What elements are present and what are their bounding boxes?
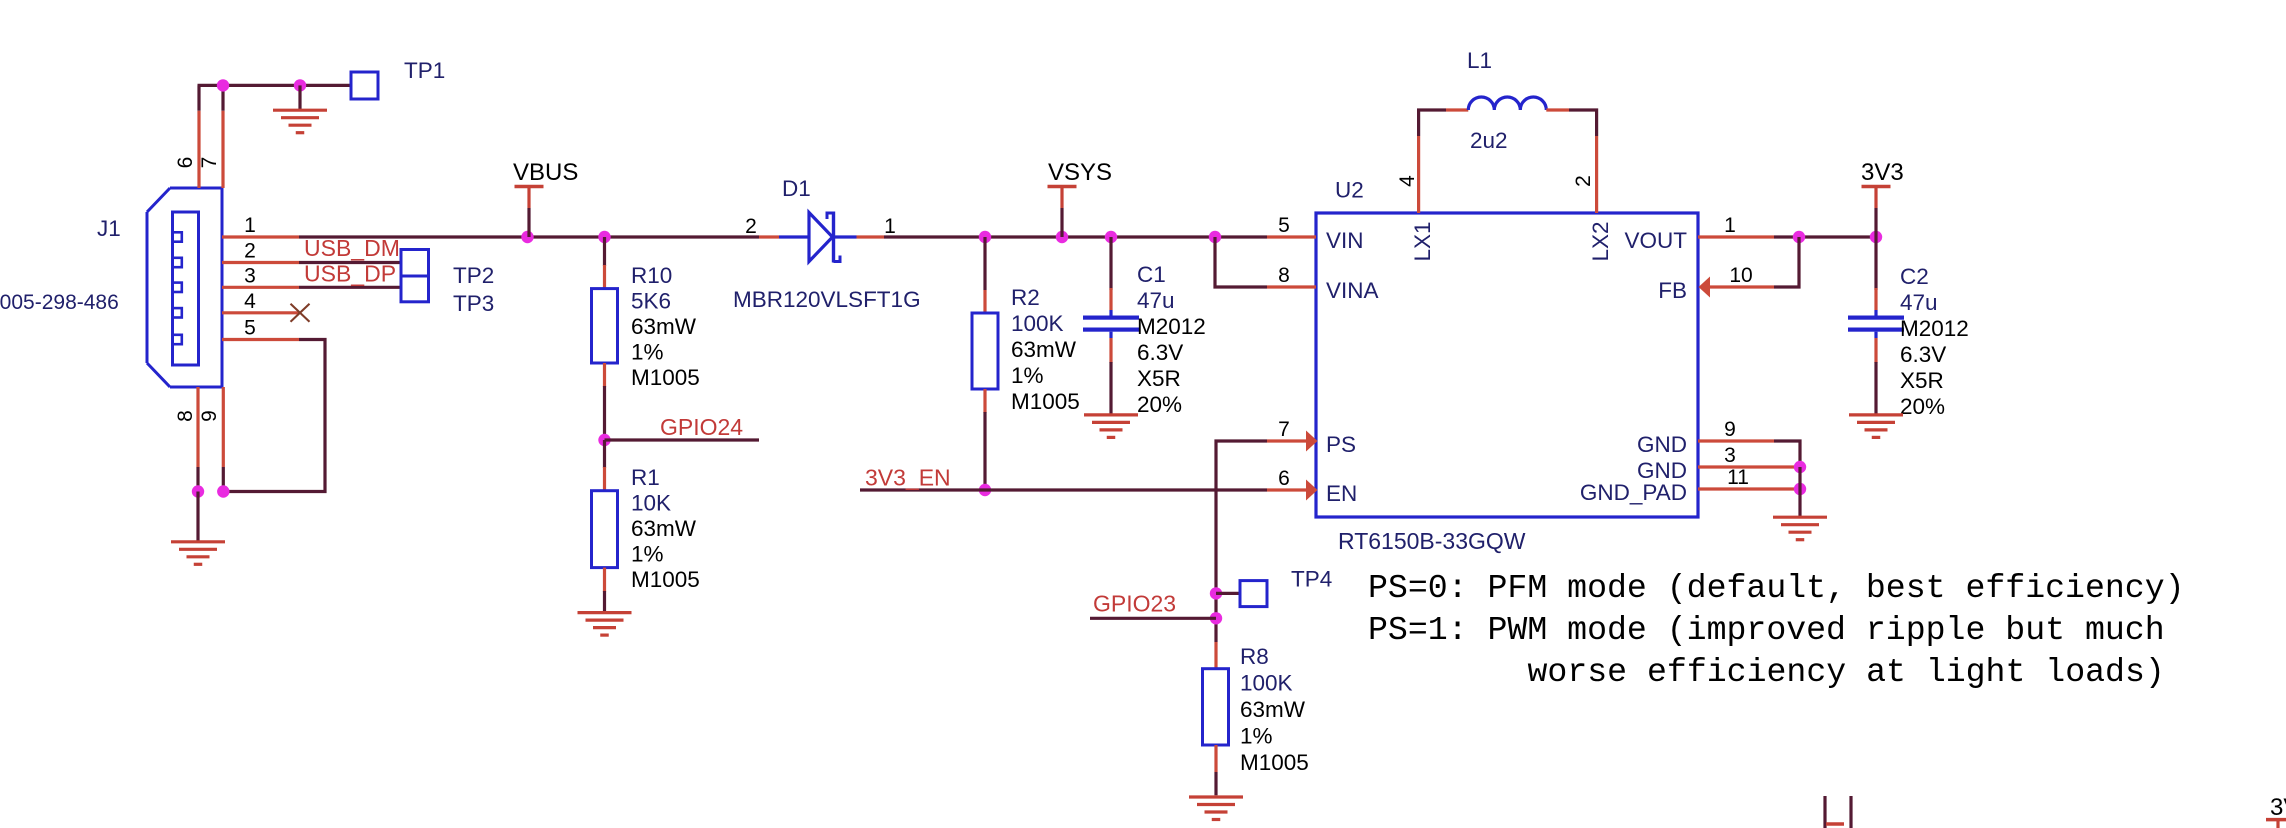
U2 pin 5 VIN (1267, 235, 1316, 238)
svg-text:C1: C1 (1137, 262, 1166, 287)
svg-text:VBUS: VBUS (513, 159, 578, 186)
ground symbol (C1) (1084, 415, 1138, 438)
svg-text:47u: 47u (1900, 290, 1938, 315)
power flag 3V3 (1862, 187, 1891, 238)
op-amp U2 body (RT6150B) (1316, 213, 1698, 517)
U2 pin number 7 (1278, 418, 1290, 441)
U2 pin 6 EN (1267, 480, 1318, 501)
TP3 label (453, 291, 494, 316)
R1 bottom pin stub (603, 568, 606, 592)
wire VOUT to C2 (1774, 235, 1876, 238)
wire R2 to 3V3_EN net (983, 412, 986, 490)
wire GPIO24 stub (605, 438, 760, 441)
svg-text:M1005: M1005 (1011, 389, 1080, 414)
wire L1 to LX2 (1569, 110, 1597, 136)
wire to J1 ground (196, 492, 199, 542)
junction TP4 (1210, 587, 1222, 599)
U2 pin 4 LX1 (1417, 136, 1420, 213)
svg-text:3: 3 (244, 264, 256, 287)
U2 part RT6150B-33GQW (1338, 528, 1526, 554)
U2 pin 8 VINA (1267, 285, 1316, 288)
R10 param 63mW (631, 314, 697, 339)
svg-text:M1005: M1005 (1240, 750, 1309, 775)
svg-text:1%: 1% (631, 340, 664, 365)
U2 pin number 4 (1396, 175, 1419, 187)
junction C1 tap (1105, 231, 1117, 243)
R2 param 63mW (1011, 337, 1077, 362)
capacitor C2 plates (1848, 316, 1904, 332)
wire GND chain down (1798, 467, 1801, 517)
svg-text:1%: 1% (631, 542, 664, 567)
C2 value 47u (1900, 290, 1938, 315)
wire top rail to TP1 (198, 84, 352, 87)
svg-text:M2012: M2012 (1900, 316, 1969, 341)
power flag VSYS (1048, 187, 1077, 238)
TP2 label (453, 263, 494, 288)
U2 pin number 2 (LX2) (1572, 175, 1595, 187)
TP4 label (1291, 567, 1332, 592)
U2 pin name VOUT (1624, 228, 1687, 253)
net label GPIO24 (660, 414, 743, 440)
svg-text:VINA: VINA (1326, 278, 1379, 303)
svg-text:9: 9 (198, 410, 221, 422)
svg-text:5: 5 (1278, 214, 1290, 237)
U2 pin name GND (9) (1637, 432, 1687, 457)
TP1 label (404, 58, 445, 83)
note text PS modes (1368, 569, 2185, 691)
svg-text:PS: PS (1326, 432, 1356, 457)
ground symbol (shield) (273, 110, 327, 133)
U2 pin name PS (1326, 432, 1356, 457)
svg-text:6: 6 (174, 157, 197, 169)
U2 pin 1 VOUT (1698, 235, 1774, 238)
VSYS net label (1048, 159, 1112, 186)
ground symbol (C2) (1849, 415, 1903, 438)
junction VBUS flag (521, 231, 533, 243)
junction GPIO24 (598, 434, 610, 446)
VBUS net label (513, 159, 578, 186)
svg-text:2: 2 (244, 240, 256, 263)
U2 pin name GND_PAD (1580, 480, 1687, 505)
U2 pin number 6 (1278, 467, 1290, 490)
ground symbol (R8) (1189, 797, 1243, 820)
R1 param 63mW (631, 516, 697, 541)
svg-text:PS=0: PFM mode (default, best: PS=0: PFM mode (default, best efficiency… (1368, 569, 2185, 607)
svg-text:2: 2 (1572, 175, 1595, 187)
wire 3V3_EN (860, 488, 1267, 491)
wire LX1 to L1 (1419, 110, 1446, 136)
U2 pin number 3 (1724, 444, 1736, 467)
wire J1 pin1 to D1 anode (299, 235, 759, 238)
wire USB_DP (pin3 to TP3) (299, 286, 401, 289)
svg-text:TP4: TP4 (1291, 567, 1332, 592)
wire to shield ground (298, 85, 301, 110)
svg-text:2: 2 (745, 215, 757, 238)
svg-text:LX2: LX2 (1588, 221, 1613, 261)
wire USB_DM (pin2 to TP2) (299, 261, 401, 264)
wire VIN branch (1215, 237, 1267, 287)
svg-text:RT6150B-33GQW: RT6150B-33GQW (1338, 528, 1526, 554)
junction R10 tap (598, 231, 610, 243)
L1 designator (1467, 48, 1492, 73)
wire J1 pin8 stub (196, 467, 199, 492)
R10 top pin stub (603, 265, 606, 289)
svg-text:L1: L1 (1467, 48, 1492, 73)
U2 pin name VINA (1326, 278, 1379, 303)
D1 pin number 1 (884, 215, 896, 238)
junction GND pin3 (1794, 461, 1806, 473)
svg-text:100K: 100K (1240, 671, 1293, 696)
R10 param M1005 (631, 365, 700, 390)
wire GND pin9 to chain (1774, 441, 1800, 467)
C2 param X5R (1900, 368, 1944, 393)
svg-text:20%: 20% (1900, 394, 1945, 419)
C1 param M2012 (1137, 314, 1206, 339)
R8 param 63mW (1240, 697, 1306, 722)
svg-text:X5R: X5R (1137, 366, 1181, 391)
svg-text:PS=1: PWM mode (improved rippl: PS=1: PWM mode (improved ripple but much (1368, 611, 2165, 649)
wire J1 pin6 to top rail (197, 85, 200, 110)
U2 pin 9 GND (1698, 439, 1774, 442)
wire J1 pin9 stub (222, 467, 225, 492)
U2 pin number 1 (1724, 214, 1736, 237)
svg-text:R8: R8 (1240, 644, 1269, 669)
C1 param 6.3V (1137, 340, 1183, 365)
U2 pin 11 GND_PAD (1698, 487, 1800, 490)
svg-text:3: 3 (1724, 444, 1736, 467)
C1 designator (1137, 262, 1166, 287)
svg-text:M2012: M2012 (1137, 314, 1206, 339)
junction GND pad (1794, 483, 1806, 495)
partial power flag 3V3 (bottom right corner) (2266, 794, 2286, 828)
svg-text:100K: 100K (1011, 311, 1064, 336)
svg-text:7: 7 (1278, 418, 1290, 441)
J1 pin 7 (221, 111, 224, 188)
ground symbol (J1) (171, 542, 225, 565)
resistor R10 body (592, 289, 618, 363)
svg-text:8: 8 (1278, 264, 1290, 287)
C1 bottom pin stub (1109, 332, 1112, 363)
wire rail to C1 (1109, 237, 1112, 290)
svg-text:7: 7 (198, 157, 221, 169)
R2 value 100K (1011, 311, 1064, 336)
D1 pin number 2 (745, 215, 757, 238)
svg-text:6: 6 (1278, 467, 1290, 490)
R8 param M1005 (1240, 750, 1309, 775)
U2 pin name VIN (1326, 228, 1364, 253)
U2 pin name LX2 (1588, 221, 1613, 261)
junction at pin7 top (217, 79, 229, 91)
C2 param 6.3V (1900, 342, 1946, 367)
C2 bottom pin stub (1874, 332, 1877, 363)
wire GPIO24 node to R1 (603, 440, 606, 468)
test point TP3 pad (401, 276, 429, 302)
svg-text:TP1: TP1 (404, 58, 445, 83)
svg-text:GND_PAD: GND_PAD (1580, 480, 1687, 505)
svg-text:5K6: 5K6 (631, 289, 671, 314)
svg-text:1: 1 (244, 214, 256, 237)
R2 param M1005 (1011, 389, 1080, 414)
svg-text:1: 1 (1724, 214, 1736, 237)
svg-text:USB_DP: USB_DP (304, 261, 396, 287)
wire GPIO23 stub (1090, 617, 1216, 620)
R2 top pin stub (983, 290, 986, 314)
wire VBUS rail to R10 (603, 237, 606, 266)
svg-text:U2: U2 (1335, 178, 1364, 203)
junction R2 tap (979, 231, 991, 243)
resistor R1 body (592, 491, 618, 568)
U2 pin 3 GND (1698, 465, 1800, 468)
test point TP2 pad (401, 250, 429, 277)
connector J1 body (147, 188, 222, 387)
junction GPIO23 (1210, 612, 1222, 624)
C2 designator (1900, 264, 1929, 289)
R1 param M1005 (631, 567, 700, 592)
test point TP1 pad (351, 72, 378, 99)
L1 pin 1 stub (1446, 108, 1468, 111)
wire C1 to ground (1109, 362, 1112, 415)
svg-text:GPIO24: GPIO24 (660, 414, 743, 440)
junction VSYS flag (1056, 231, 1068, 243)
svg-text:VIN: VIN (1326, 228, 1364, 253)
ground symbol (R1) (578, 613, 632, 636)
wire FB loop (1774, 237, 1799, 287)
svg-text:M1005: M1005 (631, 567, 700, 592)
svg-text:3V3: 3V3 (2270, 794, 2286, 821)
R2 param 1% (1011, 363, 1044, 388)
diode D1 (schottky) (779, 212, 857, 263)
svg-text:worse efficiency at light load: worse efficiency at light loads) (1528, 653, 2165, 691)
R8 top pin stub (1214, 642, 1217, 669)
svg-text:4: 4 (244, 290, 256, 313)
svg-text:6.3V: 6.3V (1900, 342, 1946, 367)
wire C2 to ground (1874, 362, 1877, 415)
U2 pin name GND (3) (1637, 458, 1687, 483)
wire R8 to ground (1214, 772, 1217, 795)
R2 bottom pin stub (983, 389, 986, 413)
svg-text:TP2: TP2 (453, 263, 494, 288)
J1 pin number 7 (198, 157, 221, 169)
svg-text:R2: R2 (1011, 285, 1040, 310)
J1 part number 1005-298-486 (0, 291, 119, 314)
wire stub bottom-left of next sheet section (1823, 796, 1826, 828)
svg-text:47u: 47u (1137, 288, 1175, 313)
svg-text:M1005: M1005 (631, 365, 700, 390)
svg-text:3V3_EN: 3V3_EN (865, 465, 951, 491)
U2 pin 2 LX2 (1595, 136, 1598, 213)
net label USB_DM (304, 235, 400, 261)
J1 pin 5 (222, 338, 299, 341)
U2 pin number 11 (1727, 466, 1749, 489)
R8 designator (1240, 644, 1269, 669)
svg-text:1%: 1% (1240, 724, 1273, 749)
wire rail to R2 (983, 237, 986, 290)
svg-text:63mW: 63mW (1240, 697, 1306, 722)
U2 pin name EN (1326, 481, 1357, 506)
U2 pin name FB (1658, 278, 1687, 303)
J1 pin number 5 (244, 317, 256, 340)
L1 value 2u2 (1470, 128, 1508, 153)
wire 3V3 to C2 (1874, 237, 1877, 290)
junction pin8 bottom (192, 485, 204, 497)
svg-text:GND: GND (1637, 432, 1687, 457)
J1 pin number 2 (244, 240, 256, 263)
J1 pin number 4 (244, 290, 256, 313)
C1 top pin stub (1109, 288, 1112, 316)
junction 3V3/C2 tap (1870, 231, 1882, 243)
svg-text:USB_DM: USB_DM (304, 235, 400, 261)
R8 bottom pin stub (1214, 745, 1217, 772)
svg-text:GPIO23: GPIO23 (1093, 591, 1176, 617)
resistor R2 body (972, 313, 998, 389)
svg-text:LX1: LX1 (1410, 221, 1435, 261)
power flag VBUS (515, 187, 544, 238)
partial red bar (cut off symbol) (1826, 822, 1844, 826)
C1 param X5R (1137, 366, 1181, 391)
U2 refdes label (1335, 178, 1364, 203)
svg-text:5: 5 (244, 317, 256, 340)
svg-text:63mW: 63mW (631, 516, 697, 541)
J1 pin number 9 (198, 410, 221, 422)
R1 top pin stub (603, 467, 606, 491)
D1 cathode pin 1 (857, 235, 885, 238)
junction VIN/VINA tap (1209, 231, 1221, 243)
svg-text:20%: 20% (1137, 392, 1182, 417)
C1 param 20% (1137, 392, 1182, 417)
net label USB_DP (304, 261, 396, 287)
J1 pin 8 (196, 387, 199, 467)
svg-text:8: 8 (174, 410, 197, 422)
J1 pin 6 (197, 111, 200, 188)
junction at TP1 ground tap (294, 79, 306, 91)
svg-text:11: 11 (1727, 466, 1749, 489)
net label GPIO23 (1093, 591, 1176, 617)
svg-text:1005-298-486: 1005-298-486 (0, 291, 119, 314)
svg-text:R10: R10 (631, 263, 672, 288)
svg-text:EN: EN (1326, 481, 1357, 506)
svg-text:J1: J1 (97, 216, 121, 241)
J1 pin number 8 (174, 410, 197, 422)
R10 bottom pin stub (603, 363, 606, 387)
R8 value 100K (1240, 671, 1293, 696)
J1 pin 3 (222, 286, 299, 289)
J1 pin number 3 (244, 264, 256, 287)
net label 3V3_EN (865, 465, 951, 491)
wire R10 to GPIO24 node (603, 386, 606, 440)
D1 anode pin 2 (759, 235, 779, 238)
wire J1 pin7 to top rail (221, 85, 224, 110)
C1 value 47u (1137, 288, 1175, 313)
wire D1 to VIN (884, 235, 1267, 238)
J1 pin 2 (222, 261, 299, 264)
svg-text:X5R: X5R (1900, 368, 1944, 393)
capacitor C1 plates (1083, 316, 1139, 332)
wire stub bottom-right of next sheet section (1849, 796, 1852, 828)
test point TP4 pad (1240, 581, 1267, 607)
U2 pin number 5 (1278, 214, 1290, 237)
L1 pin 2 stub (1546, 108, 1569, 111)
svg-text:4: 4 (1396, 175, 1419, 187)
wire PS net (1216, 441, 1267, 642)
wire R1 to ground (603, 591, 606, 612)
R1 designator (631, 465, 660, 490)
ground symbol (U2 GND) (1773, 517, 1827, 540)
svg-text:TP3: TP3 (453, 291, 494, 316)
J1 pin number 1 (244, 214, 256, 237)
C2 param M2012 (1900, 316, 1969, 341)
svg-text:3V3: 3V3 (1861, 159, 1904, 186)
svg-text:MBR120VLSFT1G: MBR120VLSFT1G (733, 287, 921, 312)
3V3 net label (1861, 159, 1904, 186)
inductor L1 (1468, 97, 1546, 110)
C2 param 20% (1900, 394, 1945, 419)
svg-text:D1: D1 (782, 176, 811, 201)
R10 value 5K6 (631, 289, 671, 314)
U2 pin number 10 (1729, 264, 1752, 287)
R10 designator (631, 263, 672, 288)
no-connect X on J1 pin 4 (291, 304, 310, 322)
J1 pin number 6 (174, 157, 197, 169)
junction pin9 bottom (217, 485, 229, 497)
svg-text:63mW: 63mW (1011, 337, 1077, 362)
svg-text:C2: C2 (1900, 264, 1929, 289)
U2 pin number 9 (1724, 418, 1736, 441)
wire J1 pin5 to pin9 net (223, 340, 325, 492)
J1 pin 9 (222, 387, 225, 467)
svg-text:FB: FB (1658, 278, 1687, 303)
resistor R8 body (1203, 669, 1229, 745)
svg-text:R1: R1 (631, 465, 660, 490)
svg-text:9: 9 (1724, 418, 1736, 441)
J1 pin 4 (222, 311, 299, 314)
svg-text:63mW: 63mW (631, 314, 697, 339)
svg-text:1: 1 (884, 215, 896, 238)
svg-text:VSYS: VSYS (1048, 159, 1112, 186)
svg-text:2u2: 2u2 (1470, 128, 1508, 153)
C2 top pin stub (1874, 288, 1877, 316)
D1 part MBR120VLSFT1G (733, 287, 921, 312)
R8 param 1% (1240, 724, 1273, 749)
R10 param 1% (631, 340, 664, 365)
U2 pin name LX1 (1410, 221, 1435, 261)
D1 designator (782, 176, 811, 201)
R1 param 1% (631, 542, 664, 567)
U2 pin number 8 (1278, 264, 1290, 287)
junction FB tap (1793, 231, 1805, 243)
R2 designator (1011, 285, 1040, 310)
svg-text:6.3V: 6.3V (1137, 340, 1183, 365)
wire to TP4 pad (1216, 592, 1240, 595)
svg-text:VOUT: VOUT (1624, 228, 1687, 253)
svg-text:1%: 1% (1011, 363, 1044, 388)
svg-text:10K: 10K (631, 491, 671, 516)
svg-text:10: 10 (1729, 264, 1752, 287)
junction 3V3_EN at R2 (979, 484, 991, 496)
U2 pin 7 PS (1267, 431, 1318, 452)
R1 value 10K (631, 491, 671, 516)
J1 pin 1 (222, 235, 299, 238)
J1 refdes label (97, 216, 121, 241)
U2 pin 10 FB (1699, 277, 1775, 298)
